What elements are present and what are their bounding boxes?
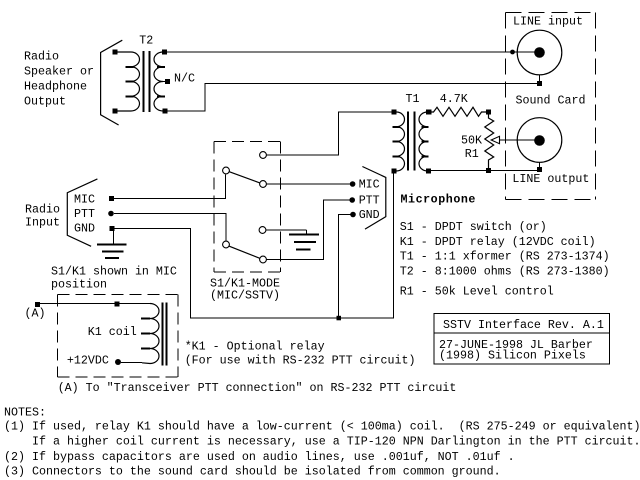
svg-text:MIC: MIC [74, 192, 95, 206]
LINE output sleeve stub [539, 162, 541, 167]
svg-text:GND: GND [74, 221, 95, 235]
radio input PTT terminal [108, 211, 114, 217]
svg-text:Speaker or: Speaker or [24, 64, 94, 78]
svg-text:K1 coil: K1 coil [88, 325, 137, 339]
wire: S1 pole2 throw down to mic PTT [267, 200, 351, 260]
T2 terminal top-right [162, 50, 167, 55]
4.7K terminal left [427, 110, 432, 115]
svg-text:S1/K1 shown in MIC: S1/K1 shown in MIC [51, 265, 177, 279]
T2 terminal top-left [113, 50, 118, 55]
junction terminal on (A) wire [115, 302, 120, 307]
connector chevron: radio speaker output [101, 40, 123, 125]
S1 pole1 throw up contact [260, 152, 267, 159]
svg-text:(3) Connectors to the sound ca: (3) Connectors to the sound card should … [4, 464, 501, 478]
microphone pin labels MIC PTT GND [359, 178, 380, 223]
svg-text:R1: R1 [465, 147, 479, 161]
label Radio Input [25, 202, 60, 229]
title block text [439, 318, 604, 362]
svg-text:Radio: Radio [24, 50, 59, 64]
label S1/K1 shown in MIC position [51, 265, 177, 292]
S1 pole2 blade [229, 246, 260, 258]
svg-text:GND: GND [359, 208, 380, 222]
svg-text:K1 - DPDT relay (12VDC coil): K1 - DPDT relay (12VDC coil) [400, 235, 596, 249]
svg-text:Sound Card: Sound Card [516, 94, 586, 108]
connector chevron: radio input [67, 179, 97, 246]
microphone PTT terminal [349, 197, 355, 203]
transformer T1 primary winding [394, 112, 405, 171]
svg-text:SSTV Interface Rev. A.1: SSTV Interface Rev. A.1 [443, 318, 604, 332]
wire: S1 pole2 throw up to ground [266, 229, 307, 231]
svg-text:*K1 - Optional relay: *K1 - Optional relay [185, 339, 325, 353]
T1 terminal top-right [426, 110, 431, 115]
svg-text:+12VDC: +12VDC [67, 353, 109, 367]
wire: T1 secondary bottom to LINE output sleeve [431, 170, 537, 172]
svg-text:Microphone: Microphone [401, 193, 476, 207]
relay K1 core [163, 303, 167, 366]
switch S1 pole1 common contact [223, 167, 230, 174]
jack: LINE input circle [517, 30, 562, 75]
T1 secondary winding ticks [422, 127, 429, 157]
wire: S1 pole1 throw down to mic MIC [267, 183, 352, 185]
svg-text:T2: T2 [139, 34, 153, 48]
radio input pin labels MIC PTT GND [74, 192, 95, 235]
T1 terminal bottom-right [426, 169, 431, 174]
svg-text:(1998) Silicon Pixels: (1998) Silicon Pixels [439, 348, 586, 362]
dashed box: K1 relay [58, 295, 179, 378]
svg-text:T2 - 8:1000 ohms (RS 273-1380): T2 - 8:1000 ohms (RS 273-1380) [400, 265, 610, 279]
connector chevron: microphone [362, 167, 385, 230]
transformer T2 core [144, 51, 150, 112]
microphone GND terminal [350, 212, 356, 218]
wire: T2 secondary bottom to LINE input sleeve [168, 84, 538, 112]
T2 secondary centre tap stub [163, 81, 166, 83]
svg-text:Radio: Radio [25, 202, 60, 216]
switch S1 pole2 common contact [223, 241, 230, 248]
svg-text:T1: T1 [406, 92, 420, 106]
T2 secondary winding ticks [157, 67, 165, 97]
LINE output centre pin [534, 135, 545, 146]
T2 terminal bottom-right [163, 109, 168, 114]
T2 primary winding ticks [126, 67, 134, 97]
jack: LINE output circle [517, 118, 562, 163]
LINE output sleeve terminal [537, 167, 542, 172]
dashed box: Sound Card [506, 13, 596, 200]
wire: radio GND net [114, 174, 394, 319]
wire: R1 wiper to LINE output tip [500, 139, 536, 141]
junction dot ground bus [337, 316, 342, 321]
transformer T1 secondary winding [419, 112, 429, 171]
svg-text:R1 - 50k Level control: R1 - 50k Level control [400, 285, 554, 299]
S1 pole1 throw down contact [260, 181, 267, 188]
svg-text:If a higher coil current is ne: If a higher coil current is necessary, u… [4, 434, 640, 448]
svg-text:T1 - 1:1 xformer (RS 273-1374): T1 - 1:1 xformer (RS 273-1374) [400, 250, 610, 264]
dashed box: S1/K1 switch [214, 142, 280, 273]
S1 pole1 blade [229, 172, 260, 183]
R1 wiper arrow [491, 136, 499, 143]
svg-text:(A): (A) [25, 307, 46, 321]
svg-text:position: position [51, 278, 107, 292]
T1 terminal bottom-left [392, 169, 397, 174]
T2 centre tap terminal N/C [165, 79, 170, 84]
svg-text:Input: Input [25, 216, 60, 230]
svg-text:LINE output: LINE output [512, 172, 589, 186]
label: Radio Speaker or Headphone Output [24, 50, 94, 109]
svg-text:NOTES:: NOTES: [4, 406, 46, 420]
4.7K terminal right [486, 110, 491, 115]
wire: S1 throw1 to T1 primary top [267, 112, 393, 155]
T1 terminal top-left [392, 110, 397, 115]
title block box [434, 314, 610, 365]
notes [4, 406, 640, 479]
svg-text:(For use with RS-232 PTT circu: (For use with RS-232 PTT circuit) [185, 353, 416, 367]
svg-text:4.7K: 4.7K [440, 92, 468, 106]
transformer T2 primary winding [117, 52, 140, 111]
wire: T2 secondary top to LINE input tip [167, 51, 535, 53]
svg-text:(2) If bypass capacitors are u: (2) If bypass capacitors are used on aud… [4, 450, 515, 464]
wire: (A) to K1 coil top [40, 303, 150, 305]
node (A) terminal [35, 302, 40, 307]
T1 primary winding ticks [393, 127, 401, 157]
wire: radio PTT to S1 pole2 [114, 214, 226, 241]
svg-text:50K: 50K [461, 134, 482, 148]
S1 pole2 throw down contact [260, 256, 267, 263]
wire: radio MIC to S1 pole1 [114, 175, 226, 199]
potentiometer R1 50K vertical zigzag [485, 114, 494, 168]
svg-text:(A) To "Transceiver PTT connec: (A) To "Transceiver PTT connection" on R… [58, 381, 457, 395]
svg-text:PTT: PTT [359, 194, 380, 208]
svg-text:Output: Output [24, 94, 66, 108]
radio input MIC terminal [109, 196, 114, 201]
svg-text:(MIC/SSTV): (MIC/SSTV) [210, 289, 280, 303]
label *K1 optional relay note [185, 339, 416, 367]
wire: microphone GND to ground bus [339, 215, 352, 319]
resistor 4.7K zigzag [431, 107, 486, 116]
K1 coil ticks [141, 319, 150, 349]
S1 pole2 throw up contact [259, 227, 266, 234]
LINE input sleeve stub [539, 75, 541, 81]
svg-text:N/C: N/C [174, 72, 195, 86]
svg-text:(1) If used, relay K1 should h: (1) If used, relay K1 should have a low-… [4, 420, 640, 434]
junction dot on LINE input wire [510, 50, 515, 55]
parts list [400, 220, 610, 299]
microphone MIC terminal [350, 181, 356, 187]
svg-text:MIC: MIC [359, 178, 380, 192]
svg-text:Headphone: Headphone [24, 79, 87, 93]
junction terminal at R1 bottom [486, 168, 491, 173]
svg-text:S1 - DPDT switch (or): S1 - DPDT switch (or) [400, 220, 547, 234]
T2 terminal bottom-left [113, 109, 118, 114]
wire: +12VDC to K1 coil bottom [121, 362, 142, 364]
ground symbol: S1 SSTV position [289, 230, 319, 249]
transformer T2 secondary winding [154, 52, 165, 111]
transformer T1 core [408, 112, 415, 171]
radio input GND terminal [110, 226, 115, 231]
relay K1 coil winding [142, 304, 159, 364]
LINE input sleeve terminal [537, 81, 542, 86]
ground symbol: radio input [97, 231, 127, 258]
+12VDC terminal dot [115, 359, 121, 365]
LINE input centre pin [534, 47, 545, 58]
svg-text:PTT: PTT [74, 207, 95, 221]
svg-text:LINE input: LINE input [513, 15, 583, 29]
